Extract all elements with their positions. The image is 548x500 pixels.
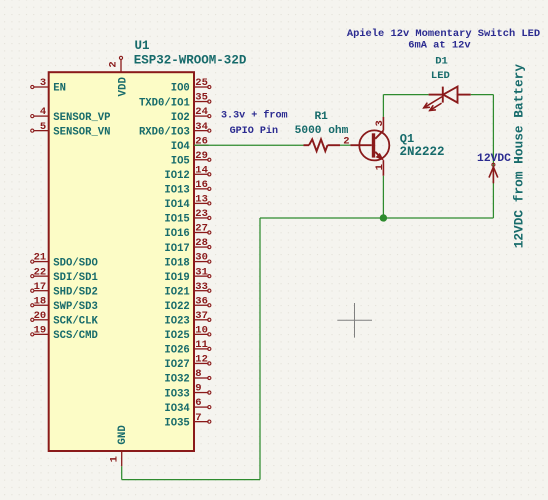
- svg-text:16: 16: [195, 179, 208, 191]
- svg-text:18: 18: [34, 295, 47, 307]
- pin 30 IO18: [164, 252, 211, 270]
- pin 6 IO34: [164, 397, 211, 415]
- svg-text:VDD: VDD: [118, 77, 130, 97]
- svg-text:GND: GND: [117, 425, 129, 445]
- svg-text:12VDC: 12VDC: [477, 153, 511, 165]
- svg-text:37: 37: [195, 310, 208, 322]
- power port 12VDC: [477, 153, 511, 183]
- pin 20 SCK/CLK: [31, 310, 99, 328]
- pin 25 IO0: [171, 77, 211, 95]
- svg-text:5: 5: [40, 121, 46, 133]
- svg-text:TXD0/IO1: TXD0/IO1: [139, 97, 190, 109]
- pin 21 SDO/SDO: [31, 252, 98, 270]
- pin 22 SDI/SD1: [31, 266, 98, 284]
- svg-text:IO19: IO19: [164, 272, 189, 284]
- wire transistor emitter down: [382, 176, 384, 218]
- wire bottom horizontal: [260, 217, 493, 219]
- svg-text:20: 20: [34, 310, 47, 322]
- svg-text:IO12: IO12: [164, 170, 189, 182]
- svg-text:SENSOR_VP: SENSOR_VP: [53, 112, 110, 124]
- svg-text:3: 3: [40, 77, 46, 89]
- svg-text:IO18: IO18: [164, 257, 189, 269]
- svg-text:30: 30: [195, 252, 208, 264]
- svg-text:2N2222: 2N2222: [400, 145, 445, 159]
- svg-text:Q1: Q1: [400, 132, 414, 146]
- svg-text:IO34: IO34: [164, 403, 190, 415]
- svg-text:3.3v + from: 3.3v + from: [221, 110, 288, 122]
- pin 26 IO4: [171, 135, 209, 153]
- svg-text:SWP/SD3: SWP/SD3: [53, 301, 98, 313]
- svg-text:31: 31: [195, 266, 208, 278]
- svg-text:28: 28: [195, 237, 208, 249]
- svg-text:IO13: IO13: [164, 185, 189, 197]
- wire top right (LED to right rail): [471, 94, 494, 96]
- pin 35 TXD0/IO1: [139, 92, 211, 110]
- svg-text:IO15: IO15: [164, 214, 189, 226]
- IC U1 body: [49, 72, 194, 451]
- wire transistor collector up: [382, 95, 384, 117]
- svg-text:D1: D1: [435, 56, 448, 68]
- svg-text:36: 36: [195, 295, 208, 307]
- svg-text:3: 3: [374, 120, 386, 126]
- svg-text:IO35: IO35: [164, 417, 189, 429]
- svg-text:IO0: IO0: [171, 83, 190, 95]
- wire GND pin stub: [121, 466, 123, 479]
- pin 23 IO15: [164, 208, 211, 226]
- svg-text:6mA at 12v: 6mA at 12v: [408, 40, 471, 52]
- svg-text:GPIO Pin: GPIO Pin: [230, 125, 278, 137]
- svg-text:17: 17: [34, 281, 47, 293]
- svg-text:IO25: IO25: [164, 330, 189, 342]
- svg-text:Apiele 12v Momentary Switch LE: Apiele 12v Momentary Switch LED: [347, 28, 540, 40]
- pin 7 IO35: [164, 412, 211, 430]
- svg-text:35: 35: [195, 92, 208, 104]
- pin 34 RXD0/IO3: [139, 121, 211, 139]
- svg-text:IO21: IO21: [164, 286, 189, 298]
- svg-text:EN: EN: [53, 83, 66, 95]
- svg-text:19: 19: [34, 324, 47, 336]
- svg-text:RXD0/IO3: RXD0/IO3: [139, 126, 190, 138]
- pin 12 IO27: [164, 354, 211, 372]
- svg-text:10: 10: [195, 324, 208, 336]
- cursor crosshair: [337, 303, 372, 338]
- svg-text:23: 23: [195, 208, 208, 220]
- svg-text:SCS/CMD: SCS/CMD: [53, 330, 98, 342]
- LED D1: [429, 87, 471, 103]
- svg-text:IO27: IO27: [164, 359, 189, 371]
- wire IO4 to resistor: [194, 144, 304, 146]
- svg-text:U1: U1: [135, 39, 150, 53]
- LED emission arrows: [424, 97, 442, 110]
- svg-text:7: 7: [195, 412, 201, 424]
- svg-text:IO17: IO17: [164, 243, 189, 255]
- svg-text:9: 9: [195, 383, 201, 395]
- svg-text:34: 34: [195, 121, 208, 133]
- svg-text:IO26: IO26: [164, 345, 189, 357]
- svg-text:21: 21: [34, 252, 47, 264]
- pin 29 IO5: [171, 150, 211, 168]
- svg-text:IO22: IO22: [164, 301, 189, 313]
- pin 8 IO32: [164, 368, 211, 386]
- wire top left (to LED): [383, 94, 428, 96]
- pin 36 IO22: [164, 295, 211, 313]
- svg-text:13: 13: [195, 194, 208, 206]
- svg-text:IO32: IO32: [164, 374, 189, 386]
- pin 5 SENSOR_VN: [31, 121, 111, 139]
- pin 24 IO2: [171, 106, 211, 124]
- svg-text:24: 24: [195, 106, 208, 118]
- svg-text:IO33: IO33: [164, 388, 189, 400]
- pin 37 IO23: [164, 310, 211, 328]
- svg-text:11: 11: [195, 339, 208, 351]
- pin 10 IO25: [164, 324, 211, 342]
- pin 31 IO19: [164, 266, 211, 284]
- svg-text:SCK/CLK: SCK/CLK: [53, 316, 98, 328]
- pin 16 IO13: [164, 179, 211, 197]
- svg-text:IO16: IO16: [164, 228, 189, 240]
- pin 17 SHD/SD2: [31, 281, 98, 299]
- pin 9 IO33: [164, 383, 211, 401]
- wire resistor to transistor base: [340, 144, 350, 146]
- pin 11 IO26: [164, 339, 211, 357]
- pin 2 VDD: [108, 56, 130, 96]
- pin 13 IO14: [164, 194, 211, 212]
- wire right rail down: [492, 95, 494, 218]
- svg-text:IO14: IO14: [164, 199, 190, 211]
- transistor Q1: [350, 117, 389, 176]
- pin 1 GND: [109, 425, 129, 467]
- pin 28 IO17: [164, 237, 211, 255]
- wire bottom GND run: [122, 479, 260, 481]
- junction: [380, 214, 387, 221]
- svg-text:IO4: IO4: [171, 141, 191, 153]
- wire left vertical (GND return): [259, 218, 261, 480]
- svg-text:8: 8: [195, 368, 201, 380]
- svg-text:14: 14: [195, 164, 208, 176]
- svg-text:22: 22: [34, 266, 47, 278]
- svg-text:12: 12: [195, 354, 208, 366]
- svg-text:R1: R1: [314, 111, 328, 123]
- svg-text:IO5: IO5: [171, 155, 190, 167]
- svg-text:5000 ohm: 5000 ohm: [295, 125, 349, 137]
- svg-text:4: 4: [40, 106, 46, 118]
- svg-text:SDI/SD1: SDI/SD1: [53, 272, 98, 284]
- svg-text:27: 27: [195, 223, 208, 235]
- svg-text:IO2: IO2: [171, 112, 190, 124]
- pin 18 SWP/SD3: [31, 295, 98, 313]
- svg-text:SHD/SD2: SHD/SD2: [53, 286, 98, 298]
- svg-text:6: 6: [195, 397, 201, 409]
- svg-text:ESP32-WROOM-32D: ESP32-WROOM-32D: [134, 53, 247, 67]
- resistor R1: [304, 139, 341, 151]
- svg-text:1: 1: [109, 456, 121, 462]
- svg-text:12VDC from House Battery: 12VDC from House Battery: [512, 64, 527, 249]
- svg-text:SENSOR_VN: SENSOR_VN: [53, 126, 110, 138]
- svg-text:IO23: IO23: [164, 316, 189, 328]
- pin 14 IO12: [164, 164, 211, 182]
- pin 33 IO21: [164, 281, 211, 299]
- pin 4 SENSOR_VP: [31, 106, 111, 124]
- svg-text:2: 2: [108, 61, 120, 67]
- svg-text:2: 2: [343, 135, 349, 147]
- pin 3 EN: [31, 77, 66, 95]
- svg-text:SDO/SDO: SDO/SDO: [53, 257, 98, 269]
- svg-text:25: 25: [195, 77, 208, 89]
- svg-text:33: 33: [195, 281, 208, 293]
- svg-text:1: 1: [374, 164, 386, 170]
- svg-text:LED: LED: [431, 70, 450, 82]
- pin 27 IO16: [164, 223, 211, 241]
- pin 19 SCS/CMD: [31, 324, 98, 342]
- svg-text:29: 29: [195, 150, 208, 162]
